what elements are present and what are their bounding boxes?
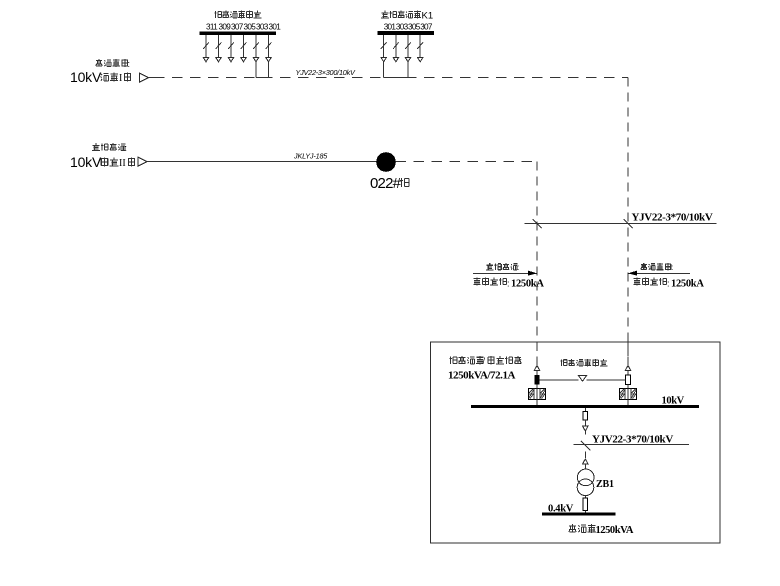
- svg-text::: :: [125, 143, 128, 153]
- svg-text:ZB1: ZB1: [596, 479, 614, 490]
- svg-text:10kV: 10kV: [662, 396, 685, 407]
- svg-text:10kV: 10kV: [70, 154, 102, 170]
- svg-text:303: 303: [256, 22, 269, 31]
- svg-text:305: 305: [408, 22, 421, 31]
- svg-text:YJV22-3×300/10kV: YJV22-3×300/10kV: [296, 68, 356, 77]
- svg-text:303: 303: [396, 22, 409, 31]
- svg-text:1250kA: 1250kA: [671, 279, 704, 290]
- svg-text::: :: [517, 263, 519, 272]
- svg-text:/: /: [483, 356, 486, 366]
- svg-text:1250kA: 1250kA: [511, 279, 544, 290]
- svg-text:YJV22-3*70/10kV: YJV22-3*70/10kV: [632, 212, 713, 224]
- svg-text:305: 305: [244, 22, 257, 31]
- svg-text:301: 301: [384, 22, 397, 31]
- svg-text:307: 307: [420, 22, 433, 31]
- svg-text:301: 301: [269, 22, 282, 31]
- svg-text:II: II: [119, 158, 126, 169]
- svg-text:309: 309: [219, 22, 232, 31]
- svg-text:1250kVA: 1250kVA: [596, 525, 634, 536]
- svg-text::: :: [507, 279, 510, 289]
- svg-text:307: 307: [231, 22, 244, 31]
- svg-text:311: 311: [206, 22, 218, 31]
- svg-text::: :: [128, 59, 131, 69]
- svg-text::: :: [671, 263, 673, 272]
- svg-text:JKLYJ-185: JKLYJ-185: [293, 152, 328, 161]
- svg-text:K1: K1: [422, 10, 434, 21]
- svg-text:0.4kV: 0.4kV: [548, 504, 574, 515]
- svg-text:1250kVA/72.1A: 1250kVA/72.1A: [448, 370, 515, 382]
- svg-text:10kV: 10kV: [70, 69, 102, 85]
- svg-text:I: I: [119, 73, 122, 84]
- svg-text:YJV22-3*70/10kV: YJV22-3*70/10kV: [592, 434, 673, 446]
- svg-text::: :: [667, 279, 670, 289]
- svg-text::: :: [520, 356, 523, 366]
- svg-text:022#: 022#: [370, 175, 402, 192]
